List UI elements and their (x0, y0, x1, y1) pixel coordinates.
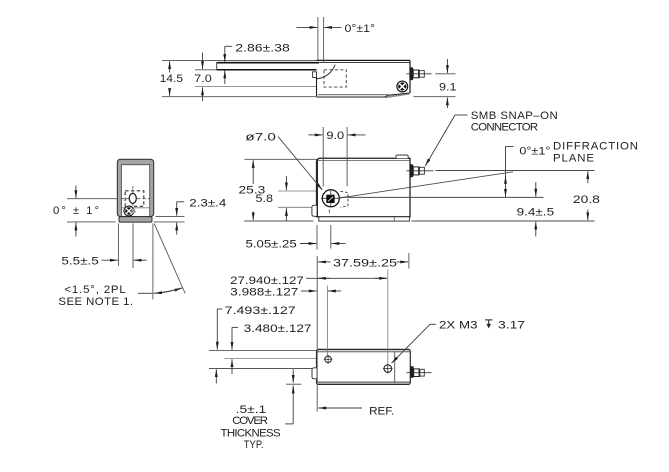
end view: base plate (119, 217, 152, 223)
front view: aperture (321, 190, 341, 214)
svg-text:20.8: 20.8 (573, 194, 600, 206)
extension: left screw centerline (326, 286, 328, 356)
svg-text:37.59±.25: 37.59±.25 (333, 257, 397, 269)
dim 9.4+-.5 (517, 182, 555, 237)
side view: body top extension line (162, 59, 317, 61)
svg-text:TYP.: TYP. (244, 439, 264, 451)
svg-text:0°±1°: 0°±1° (345, 23, 376, 35)
side view: bottom extension line (162, 96, 317, 98)
front view: base plane extension (right) (412, 220, 595, 222)
extension: right screw centerline (387, 270, 389, 365)
bottom view: SMB connector (407, 366, 432, 378)
side view: SMB connector (407, 67, 432, 80)
svg-text:9.0: 9.0 (326, 130, 344, 142)
dim 5.5+-.5 (61, 224, 146, 269)
label 2X M3 depth 3.17 (392, 319, 526, 363)
side view: chamfered bottom-right corner (385, 93, 410, 97)
svg-text:14.5: 14.5 (160, 73, 183, 85)
dim 9.0 (309, 127, 366, 186)
dim 7.493+-.127 (216, 305, 295, 384)
svg-text:ø7.0: ø7.0 (245, 131, 276, 143)
side view: plate lower edge (195, 86, 317, 88)
end view: body shell (117, 159, 153, 216)
svg-text:2.3±.4: 2.3±.4 (189, 197, 226, 209)
svg-text:DIFFRACTION: DIFFRACTION (553, 140, 638, 152)
dim 20.8 (573, 171, 600, 220)
dim 0deg +- 1deg (end view) (53, 186, 117, 237)
svg-text:REF.: REF. (369, 405, 394, 417)
extension: body right edge (408, 253, 410, 269)
dim 9.1 (414, 59, 457, 108)
side view: aperture turret lines (317, 17, 319, 60)
dim 14.5 (160, 61, 183, 96)
svg-text:7.0: 7.0 (194, 73, 212, 85)
end view: screw head (124, 206, 136, 216)
bottom view: screw hole right (383, 364, 393, 374)
front view: left tab (312, 205, 317, 216)
dim 7.0 (194, 53, 212, 102)
dim 5.05+-.25 (246, 225, 346, 250)
svg-text:3.480±.127: 3.480±.127 (244, 323, 312, 335)
front view: top extension line (244, 158, 316, 160)
front view: diffraction plane line (339, 172, 513, 198)
svg-text:SMB SNAP–ON: SMB SNAP–ON (471, 110, 558, 122)
side view: plate left end edge (216, 63, 218, 70)
dim 3.480+-.127 (232, 323, 312, 374)
datum extension line (REF) (316, 256, 318, 412)
dim 0deg+-1 diffraction plane (506, 140, 639, 197)
svg-text:27.940±.127: 27.940±.127 (230, 275, 304, 287)
svg-text:5.05±.25: 5.05±.25 (246, 238, 297, 250)
front view: window edge extensions (278, 190, 323, 192)
svg-text:9.4±.5: 9.4±.5 (517, 207, 555, 219)
dim 5.8 (256, 176, 287, 222)
dim 2.86+-.38 (225, 43, 290, 85)
front view: rotated window (dashed) (341, 191, 348, 207)
dim <1.5deg 2PL note (58, 224, 185, 308)
leader dia 7.0 (245, 131, 322, 190)
svg-text:THICKNESS: THICKNESS (221, 427, 281, 439)
front view: base plate (319, 217, 410, 221)
bottom view: body outline (317, 349, 411, 384)
label REF. (318, 405, 394, 417)
svg-text:3.988±.127: 3.988±.127 (230, 286, 298, 298)
side view: main body outline (317, 60, 411, 97)
svg-text:7.493±.127: 7.493±.127 (225, 305, 296, 317)
svg-text:SEE NOTE 1.: SEE NOTE 1. (58, 296, 133, 308)
front view: body outline (317, 158, 411, 217)
front view: aperture centerline extension (339, 196, 543, 198)
side view: corner curve detail (317, 65, 335, 79)
svg-text:CONNECTOR: CONNECTOR (471, 121, 538, 133)
svg-text:COVER: COVER (232, 415, 268, 427)
end view: hidden window (dashed) (125, 191, 144, 207)
dim 3.988+-.127 (230, 286, 341, 298)
svg-text:2X M3: 2X M3 (439, 319, 478, 331)
side view: hidden window (dashed) (324, 70, 346, 87)
side view: left mounting tab (313, 72, 317, 78)
svg-text:<1.5°, 2PL: <1.5°, 2PL (64, 284, 125, 296)
end view: center lines (dashed) (121, 186, 150, 209)
side view: window plate top edge (217, 62, 319, 64)
dim 27.940+-.127 (230, 275, 387, 287)
side view: plate second edge (195, 69, 217, 71)
dim .5+-.1 cover thickness (221, 369, 302, 451)
front view: base extension line (left) (244, 220, 313, 222)
front view: SMB connector (407, 164, 434, 177)
bottom view: screw hole left (324, 355, 333, 364)
front view: top tab (396, 155, 408, 158)
svg-text:2.86±.38: 2.86±.38 (235, 43, 289, 55)
svg-text:5.8: 5.8 (256, 193, 274, 205)
bottom view: left tab (312, 368, 317, 379)
svg-text:5.5±.5: 5.5±.5 (61, 256, 98, 268)
svg-text:0°±1°: 0°±1° (519, 145, 550, 157)
label SMB SNAP&#8211;ON CONNECTOR (425, 110, 558, 166)
dim 0deg+-1 (top) (297, 23, 376, 35)
end view: aperture ellipse (129, 193, 136, 203)
side view: screw head (397, 81, 408, 92)
dim 2.3+-.4 (154, 197, 227, 234)
svg-text:9.1: 9.1 (439, 82, 457, 94)
front view: connector axis extension (436, 170, 595, 172)
svg-text:PLANE: PLANE (553, 152, 594, 164)
dim 37.59+-.25 (318, 257, 408, 269)
svg-text:3.17: 3.17 (498, 319, 525, 331)
dim 25.3 (239, 160, 266, 220)
bottom view: window plate edges (209, 350, 379, 368)
